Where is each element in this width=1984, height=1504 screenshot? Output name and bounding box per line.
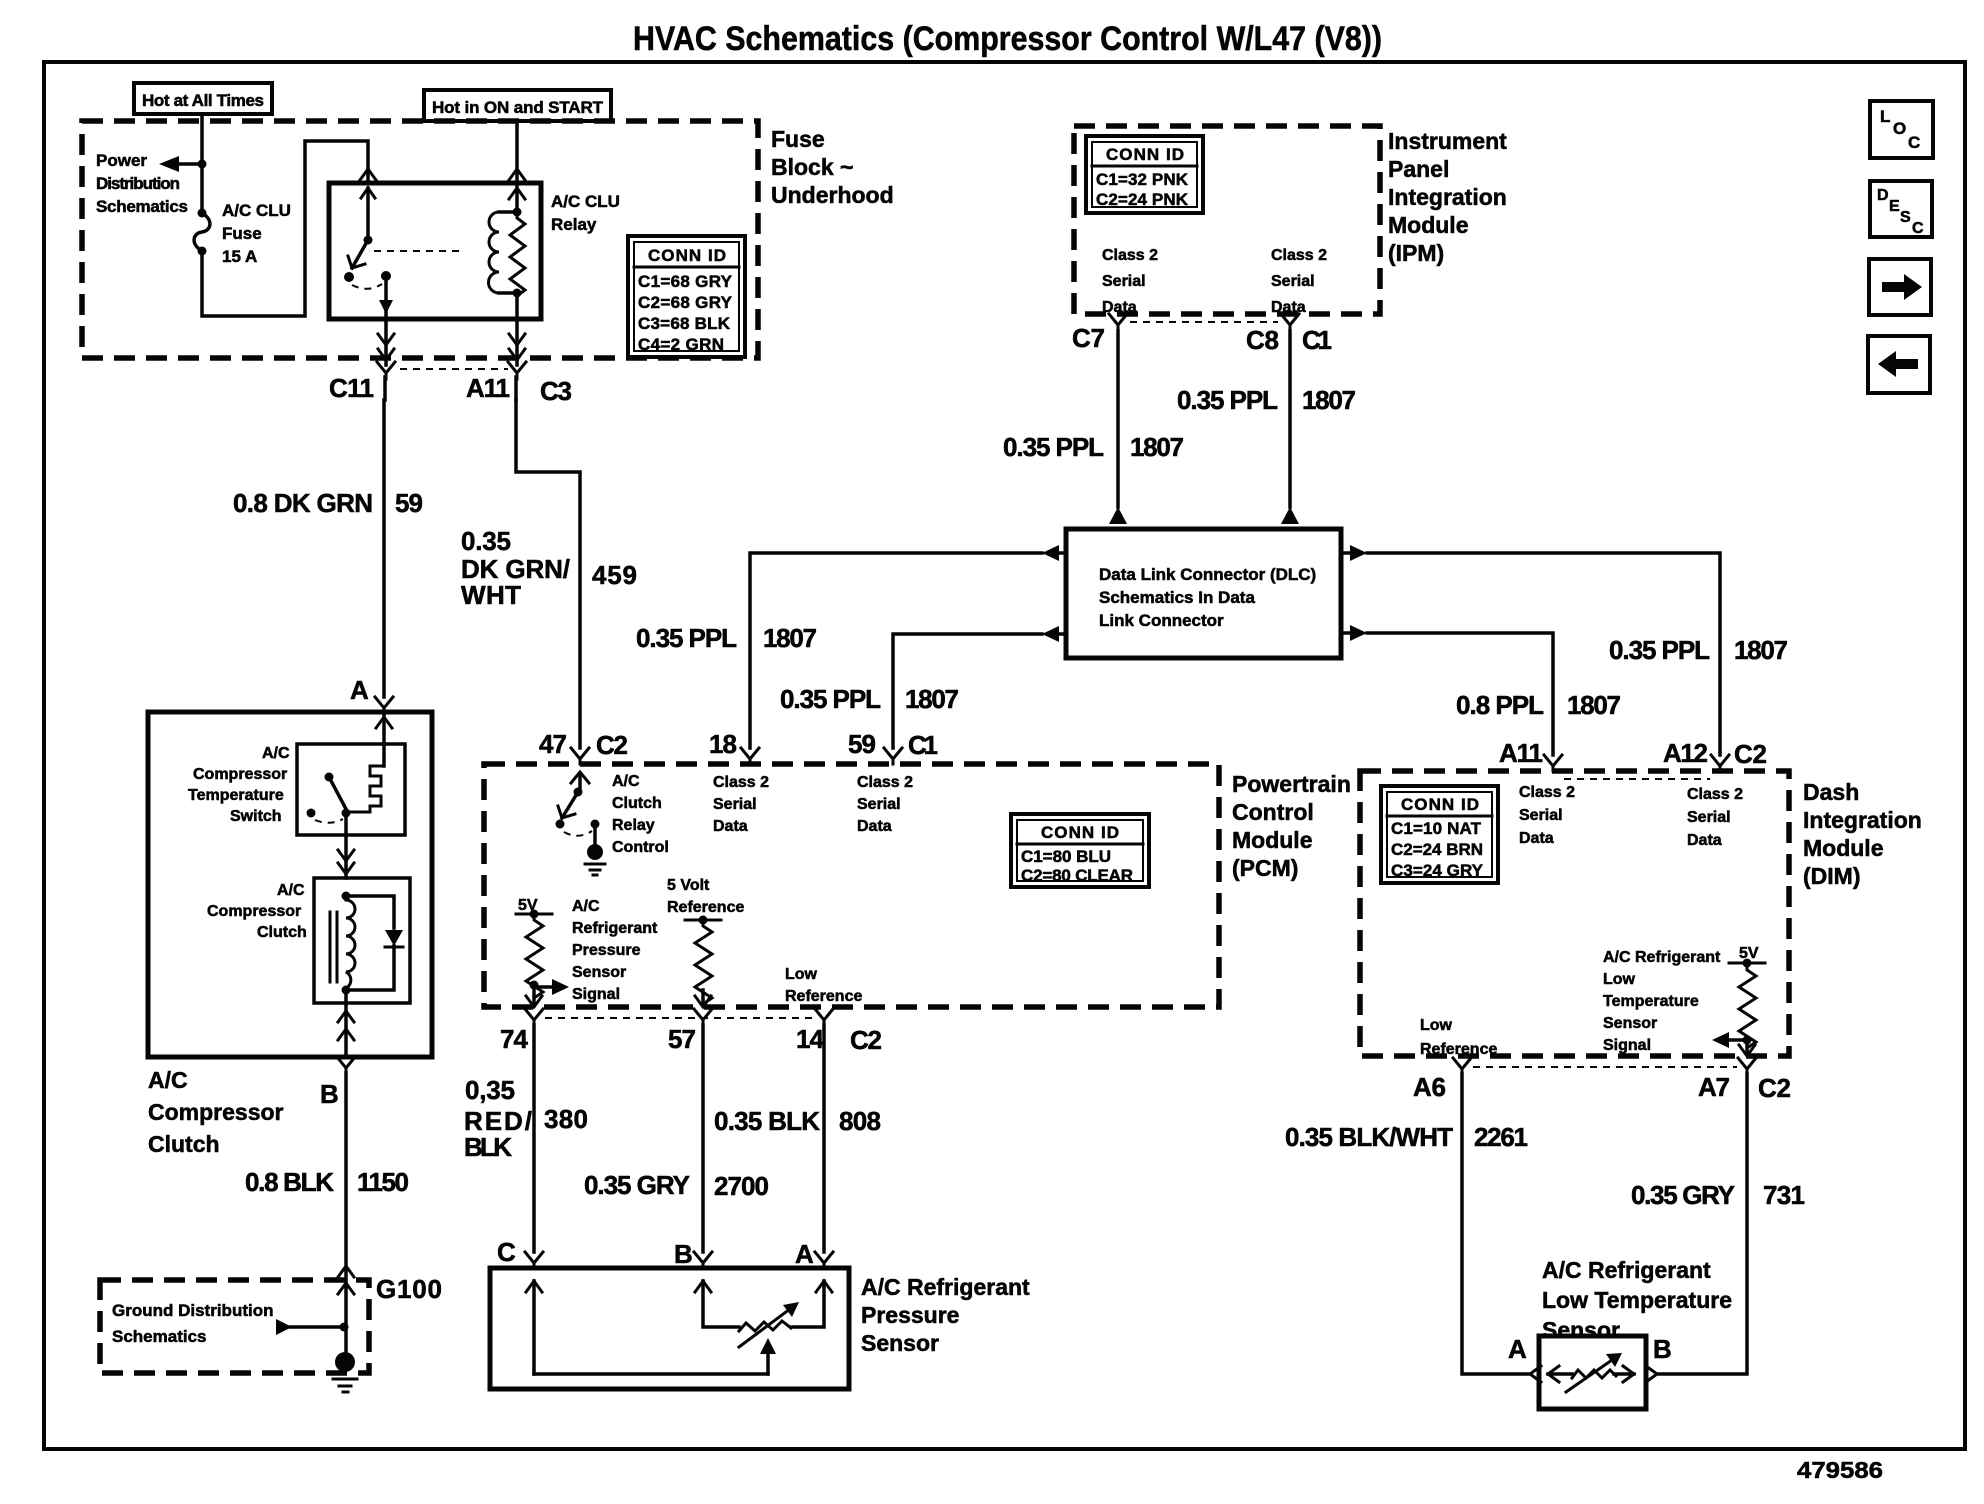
svg-text:Sensor: Sensor bbox=[1542, 1317, 1620, 1343]
svg-text:C1=68 GRY: C1=68 GRY bbox=[638, 272, 733, 291]
A/C compressor clutch inner box bbox=[314, 878, 410, 1003]
svg-text:Pressure: Pressure bbox=[572, 942, 641, 959]
wire Hot in ON and START to relay coil bbox=[515, 121, 519, 183]
DLC right arrow to DIM pin A11 bbox=[1341, 625, 1553, 755]
label Power Distribution Schematics bbox=[96, 151, 188, 216]
svg-text:Schematics: Schematics bbox=[112, 1327, 207, 1346]
svg-text:L: L bbox=[1880, 107, 1890, 126]
svg-text:1807: 1807 bbox=[1130, 432, 1184, 462]
svg-text:A/C: A/C bbox=[148, 1067, 188, 1093]
wire resistor to pin 74 bbox=[526, 985, 542, 1007]
connector dashed line A11-A12 bbox=[1564, 778, 1710, 780]
svg-text:0.35 PPL: 0.35 PPL bbox=[636, 623, 737, 653]
svg-text:CONN ID: CONN ID bbox=[1041, 823, 1119, 842]
svg-text:Reference: Reference bbox=[785, 988, 862, 1005]
svg-text:Control: Control bbox=[612, 839, 669, 856]
svg-text:Panel: Panel bbox=[1388, 156, 1449, 182]
svg-text:B: B bbox=[1653, 1334, 1672, 1364]
relay coil resistor bbox=[510, 212, 525, 319]
svg-text:Block ~: Block ~ bbox=[771, 154, 853, 180]
svg-text:Class 2: Class 2 bbox=[1519, 784, 1575, 801]
resistor A/C refrigerant low temperature sensor bbox=[1739, 963, 1756, 1051]
svg-text:C11: C11 bbox=[329, 373, 374, 403]
svg-text:0,35: 0,35 bbox=[465, 1075, 515, 1105]
svg-text:A/C CLU: A/C CLU bbox=[551, 192, 620, 211]
svg-text:1807: 1807 bbox=[1567, 690, 1621, 720]
svg-text:A11: A11 bbox=[466, 373, 510, 403]
svg-text:A/C Refrigerant: A/C Refrigerant bbox=[861, 1274, 1030, 1300]
temperature switch internals bbox=[307, 766, 385, 835]
svg-text:C2: C2 bbox=[850, 1025, 882, 1055]
svg-text:Clutch: Clutch bbox=[148, 1131, 220, 1157]
svg-text:0.8 BLK: 0.8 BLK bbox=[245, 1167, 334, 1197]
svg-text:Relay: Relay bbox=[551, 215, 597, 234]
pin 18 of PCM bbox=[709, 729, 759, 764]
svg-text:A11: A11 bbox=[1499, 738, 1543, 768]
pin A7 / C2 of DIM bbox=[1698, 1058, 1791, 1103]
svg-text:459: 459 bbox=[592, 560, 637, 590]
svg-text:Pressure: Pressure bbox=[861, 1302, 959, 1328]
low temperature sensor internals bbox=[1548, 1353, 1634, 1392]
svg-text:C: C bbox=[1908, 133, 1920, 152]
ground symbol in PCM bbox=[585, 824, 605, 875]
pin A of pressure sensor bbox=[795, 1239, 833, 1269]
wire 5 volt reference to pin 57 bbox=[695, 990, 711, 1007]
svg-text:Sensor: Sensor bbox=[572, 964, 626, 981]
svg-text:Low: Low bbox=[1420, 1017, 1453, 1034]
svg-text:A: A bbox=[1508, 1334, 1527, 1364]
svg-text:WHT: WHT bbox=[461, 580, 521, 610]
pin C of pressure sensor bbox=[497, 1237, 543, 1268]
svg-text:Instrument: Instrument bbox=[1388, 128, 1507, 154]
pin A11 of DIM bbox=[1499, 738, 1562, 771]
svg-text:18: 18 bbox=[709, 729, 737, 759]
label Low Reference (DIM) bbox=[1420, 1017, 1497, 1058]
ground distribution dashed box bbox=[100, 1280, 369, 1373]
DLC left arrow to PCM pin 18 bbox=[750, 545, 1066, 748]
arrow to Power Distribution Schematics bbox=[159, 156, 207, 172]
wire A11/C3 to PCM pin 47 with label 0.35 DK GRN/WHT 459 bbox=[516, 400, 580, 748]
svg-text:5 Volt: 5 Volt bbox=[667, 877, 710, 894]
svg-text:Reference: Reference bbox=[667, 899, 744, 916]
svg-text:C3=68 BLK: C3=68 BLK bbox=[638, 314, 731, 333]
label Data Link Connector text bbox=[1099, 565, 1316, 630]
svg-text:A: A bbox=[795, 1239, 814, 1269]
label Powertrain Control Module (PCM) bbox=[1232, 771, 1351, 881]
A/C refrigerant low temperature sensor box bbox=[1539, 1336, 1646, 1409]
connector chevron at relay switch input bbox=[360, 169, 376, 180]
pin 14 / C2 of PCM bbox=[796, 1009, 882, 1055]
wire fuse to relay switch bbox=[202, 141, 368, 316]
svg-text:Class 2: Class 2 bbox=[1271, 247, 1327, 264]
pin 59 / C1 of PCM bbox=[848, 729, 938, 764]
connector dashed line C7-C8 bbox=[1130, 321, 1278, 323]
pin 74 of PCM bbox=[500, 1009, 543, 1054]
svg-text:BLK: BLK bbox=[464, 1132, 512, 1162]
svg-text:C8: C8 bbox=[1246, 325, 1279, 355]
svg-text:15 A: 15 A bbox=[222, 247, 257, 266]
svg-text:Relay: Relay bbox=[612, 817, 655, 834]
svg-text:57: 57 bbox=[668, 1024, 696, 1054]
svg-text:C2=24 BRN: C2=24 BRN bbox=[1391, 840, 1483, 859]
svg-text:Module: Module bbox=[1388, 212, 1469, 238]
svg-text:C3: C3 bbox=[540, 376, 572, 406]
svg-text:0.35 BLK/WHT: 0.35 BLK/WHT bbox=[1285, 1122, 1453, 1152]
DESC button bbox=[1870, 181, 1932, 237]
svg-text:C2: C2 bbox=[1758, 1073, 1791, 1103]
svg-text:Data Link Connector (DLC): Data Link Connector (DLC) bbox=[1099, 565, 1316, 584]
label Instrument Panel Integration Module (IPM) bbox=[1388, 128, 1507, 266]
connector dashed line A6-A7 bbox=[1473, 1066, 1737, 1068]
CONN ID table fuse block bbox=[628, 236, 745, 357]
pin C7 bbox=[1072, 314, 1127, 353]
svg-text:Serial: Serial bbox=[857, 796, 901, 813]
svg-text:Serial: Serial bbox=[1271, 273, 1315, 290]
svg-text:C: C bbox=[497, 1237, 516, 1267]
svg-text:Low: Low bbox=[1603, 971, 1636, 988]
svg-text:Temperature: Temperature bbox=[188, 787, 284, 804]
CONN ID table PCM bbox=[1011, 814, 1149, 887]
wire pin A7 to sensor pin B bbox=[1659, 1074, 1747, 1374]
label Ground Distribution Schematics bbox=[112, 1301, 273, 1346]
wire resistor to pin A7 bbox=[1739, 1040, 1755, 1056]
svg-text:A7: A7 bbox=[1698, 1072, 1730, 1102]
svg-text:Compressor: Compressor bbox=[193, 766, 287, 783]
A/C refrigerant pressure sensor box bbox=[490, 1268, 849, 1389]
svg-text:Data: Data bbox=[1102, 299, 1137, 316]
wire pin B to G100 with label 0.8 BLK 1150 bbox=[344, 1073, 348, 1363]
label A/C Refrigerant Low Temperature Sensor bbox=[1542, 1257, 1732, 1343]
svg-text:380: 380 bbox=[544, 1104, 588, 1134]
svg-text:Low: Low bbox=[785, 966, 818, 983]
wire pin A6 to sensor pin A bbox=[1462, 1074, 1528, 1374]
svg-text:0.35 PPL: 0.35 PPL bbox=[780, 684, 881, 714]
fuse block underhood dashed box bbox=[82, 121, 758, 358]
Hot in ON and START banner bbox=[424, 90, 611, 121]
svg-text:Class 2: Class 2 bbox=[713, 774, 769, 791]
svg-text:C4=2 GRN: C4=2 GRN bbox=[638, 335, 724, 354]
A/C CLU relay box bbox=[329, 183, 541, 319]
CONN ID table DIM bbox=[1381, 786, 1498, 883]
svg-text:Integration: Integration bbox=[1803, 807, 1922, 833]
resistor 5 volt reference bbox=[695, 920, 712, 1006]
back arrow button bbox=[1868, 336, 1930, 393]
svg-text:1807: 1807 bbox=[1302, 385, 1356, 415]
wire from Hot at All Times to fuse bbox=[200, 114, 204, 212]
arrow to ground wire bbox=[276, 1319, 349, 1335]
label A/C Refrigerant Pressure Sensor bbox=[861, 1274, 1030, 1356]
svg-text:Ground Distribution: Ground Distribution bbox=[112, 1301, 273, 1320]
svg-text:B: B bbox=[674, 1239, 693, 1269]
wire clutch to pin B bbox=[338, 1003, 354, 1057]
svg-text:A/C Refrigerant: A/C Refrigerant bbox=[1603, 949, 1721, 966]
svg-text:A6: A6 bbox=[1413, 1072, 1446, 1102]
svg-text:A/C: A/C bbox=[262, 745, 290, 762]
svg-text:G100: G100 bbox=[376, 1274, 442, 1304]
pressure sensor internals bbox=[526, 1281, 832, 1374]
label Class 2 Serial Data (IPM C7) bbox=[1102, 247, 1158, 316]
svg-text:Schematics In Data: Schematics In Data bbox=[1099, 588, 1255, 607]
svg-text:14: 14 bbox=[796, 1024, 825, 1054]
svg-text:A/C: A/C bbox=[572, 898, 600, 915]
svg-text:808: 808 bbox=[839, 1106, 881, 1136]
label A/C Clutch Relay Control bbox=[612, 773, 669, 856]
relay switch bbox=[344, 188, 393, 319]
svg-text:Dash: Dash bbox=[1803, 779, 1859, 805]
svg-text:Serial: Serial bbox=[1687, 809, 1731, 826]
svg-text:Data: Data bbox=[1519, 830, 1554, 847]
svg-text:59: 59 bbox=[395, 488, 423, 518]
svg-text:0.35 PPL: 0.35 PPL bbox=[1177, 385, 1278, 415]
label A/C Compressor Temperature Switch bbox=[188, 745, 290, 825]
svg-text:B: B bbox=[320, 1079, 339, 1109]
wire temperature switch to clutch coil bbox=[338, 835, 354, 878]
svg-text:Signal: Signal bbox=[1603, 1037, 1651, 1054]
chevrons at ground box entry bbox=[338, 1266, 354, 1294]
label A/C Refrigerant Pressure Sensor Signal bbox=[572, 898, 658, 1003]
svg-text:C1=80 BLU: C1=80 BLU bbox=[1021, 847, 1111, 866]
svg-text:Module: Module bbox=[1803, 835, 1884, 861]
svg-text:Refrigerant: Refrigerant bbox=[572, 920, 658, 937]
svg-text:Hot at All Times: Hot at All Times bbox=[142, 91, 264, 110]
svg-text:(PCM): (PCM) bbox=[1232, 855, 1298, 881]
5 volt reference supply bbox=[667, 877, 744, 925]
svg-text:C2=80 CLEAR: C2=80 CLEAR bbox=[1021, 866, 1133, 885]
svg-text:Sensor: Sensor bbox=[1603, 1015, 1657, 1032]
ground symbol G100 bbox=[333, 1352, 357, 1392]
CONN ID table IPM bbox=[1086, 136, 1203, 213]
relay output wire to C11 bbox=[378, 319, 394, 400]
relay coil output wire to A11 bbox=[509, 319, 525, 400]
pin 47 / C2 of PCM bbox=[539, 729, 628, 764]
svg-text:(IPM): (IPM) bbox=[1388, 240, 1444, 266]
label Dash Integration Module (DIM) bbox=[1803, 779, 1922, 889]
label 0,35 RED/BLK bbox=[464, 1075, 532, 1162]
svg-text:74: 74 bbox=[500, 1024, 529, 1054]
connector pin C11 bbox=[329, 362, 395, 403]
svg-text:C2=68 GRY: C2=68 GRY bbox=[638, 293, 733, 312]
svg-text:0.35 PPL: 0.35 PPL bbox=[1609, 635, 1710, 665]
svg-text:C2=24 PNK: C2=24 PNK bbox=[1096, 190, 1189, 209]
svg-text:Fuse: Fuse bbox=[771, 126, 825, 152]
svg-text:Serial: Serial bbox=[1519, 807, 1563, 824]
svg-text:2700: 2700 bbox=[714, 1171, 769, 1201]
DIM dashed box bbox=[1360, 771, 1789, 1056]
svg-text:Distribution: Distribution bbox=[96, 174, 180, 193]
forward arrow button bbox=[1869, 259, 1931, 315]
svg-text:1807: 1807 bbox=[763, 623, 817, 653]
svg-text:A/C: A/C bbox=[277, 882, 305, 899]
pin B of low temperature sensor bbox=[1646, 1334, 1672, 1382]
svg-text:Sensor: Sensor bbox=[861, 1330, 939, 1356]
pin C8 / C1 bbox=[1246, 314, 1332, 355]
relay coil bbox=[489, 183, 522, 293]
label Class 2 Serial Data (PCM 59) bbox=[857, 774, 913, 835]
svg-text:CONN ID: CONN ID bbox=[1401, 795, 1479, 814]
DLC right arrow to DIM pin A12 bbox=[1341, 545, 1720, 755]
svg-text:2261: 2261 bbox=[1474, 1122, 1528, 1152]
svg-text:1150: 1150 bbox=[357, 1167, 409, 1197]
svg-text:Reference: Reference bbox=[1420, 1041, 1497, 1058]
svg-text:Module: Module bbox=[1232, 827, 1313, 853]
svg-text:0.35 PPL: 0.35 PPL bbox=[1003, 432, 1104, 462]
svg-text:(DIM): (DIM) bbox=[1803, 863, 1860, 889]
svg-text:O: O bbox=[1893, 119, 1906, 138]
fuse A/C CLU 15A bbox=[194, 209, 210, 256]
label Class 2 Serial Data (DIM A11) bbox=[1519, 784, 1575, 847]
svg-text:Compressor: Compressor bbox=[148, 1099, 284, 1125]
svg-text:Data: Data bbox=[713, 818, 748, 835]
svg-text:Control: Control bbox=[1232, 799, 1314, 825]
wire pin 14 to sensor pin A bbox=[822, 1025, 826, 1252]
svg-text:Class 2: Class 2 bbox=[857, 774, 913, 791]
svg-text:CONN ID: CONN ID bbox=[648, 246, 726, 265]
5V supply in DIM bbox=[1729, 945, 1765, 968]
pin A of low temperature sensor bbox=[1508, 1334, 1541, 1382]
svg-text:Compressor: Compressor bbox=[207, 903, 301, 920]
svg-text:Integration: Integration bbox=[1388, 184, 1507, 210]
signal arrow right bbox=[530, 979, 570, 995]
svg-text:A/C Refrigerant: A/C Refrigerant bbox=[1542, 1257, 1711, 1283]
A/C compressor clutch outer box bbox=[148, 712, 432, 1057]
signal arrow left in DIM bbox=[1712, 1032, 1752, 1048]
label A/C CLU Relay bbox=[551, 192, 620, 234]
connector pin A11 / C3 bbox=[466, 362, 572, 406]
svg-text:D: D bbox=[1877, 187, 1889, 204]
svg-text:Serial: Serial bbox=[1102, 273, 1146, 290]
label A/C Refrigerant Low Temperature Sensor Signal bbox=[1603, 949, 1721, 1054]
svg-text:E: E bbox=[1889, 198, 1900, 215]
pin B of compressor bbox=[320, 1057, 355, 1109]
relay actuation dashed link bbox=[374, 250, 461, 252]
svg-text:1807: 1807 bbox=[905, 684, 959, 714]
svg-text:Powertrain: Powertrain bbox=[1232, 771, 1351, 797]
svg-text:C: C bbox=[1912, 220, 1924, 237]
svg-text:A12: A12 bbox=[1663, 738, 1708, 768]
svg-text:731: 731 bbox=[1763, 1180, 1805, 1210]
label A/C Compressor Clutch below box bbox=[148, 1067, 284, 1157]
label Class 2 Serial Data (IPM C8) bbox=[1271, 247, 1327, 316]
Data Link Connector DLC box bbox=[1066, 529, 1341, 658]
svg-text:Link Connector: Link Connector bbox=[1099, 611, 1224, 630]
pin A of compressor bbox=[350, 675, 393, 712]
5V supply in PCM bbox=[516, 897, 552, 919]
svg-text:479586: 479586 bbox=[1797, 1457, 1883, 1483]
wire C7 to DLC with label 0.35 PPL 1807 bbox=[1109, 331, 1127, 524]
svg-text:47: 47 bbox=[539, 729, 567, 759]
wire C8 to DLC with label 0.35 PPL 1807 bbox=[1281, 331, 1299, 524]
wire pin 57 to sensor pin B bbox=[701, 1025, 705, 1252]
A/C compressor temperature switch box bbox=[297, 744, 405, 835]
svg-text:CONN ID: CONN ID bbox=[1106, 145, 1184, 164]
svg-text:Data: Data bbox=[1687, 832, 1722, 849]
svg-text:S: S bbox=[1900, 209, 1911, 226]
svg-text:0.35 BLK: 0.35 BLK bbox=[714, 1106, 820, 1136]
svg-text:Class 2: Class 2 bbox=[1102, 247, 1158, 264]
svg-text:Signal: Signal bbox=[572, 986, 620, 1003]
svg-text:Fuse: Fuse bbox=[222, 224, 262, 243]
label Class 2 Serial Data (PCM 18) bbox=[713, 774, 769, 835]
svg-text:59: 59 bbox=[848, 729, 876, 759]
pin 57 of PCM bbox=[668, 1009, 712, 1054]
wire pin 74 to sensor pin C bbox=[532, 1025, 536, 1252]
pin A6 of DIM bbox=[1413, 1058, 1471, 1102]
svg-text:C1=10 NAT: C1=10 NAT bbox=[1391, 819, 1482, 838]
svg-text:Data: Data bbox=[857, 818, 892, 835]
Hot at All Times banner bbox=[134, 83, 272, 114]
svg-text:Temperature: Temperature bbox=[1603, 993, 1699, 1010]
svg-text:A: A bbox=[350, 675, 369, 705]
label Fuse Block ~ Underhood bbox=[771, 126, 894, 208]
label Low Reference (PCM) bbox=[785, 966, 862, 1005]
PCM dashed box bbox=[484, 764, 1219, 1007]
clutch coil and diode bbox=[330, 892, 403, 1004]
svg-text:0.8 PPL: 0.8 PPL bbox=[1456, 690, 1544, 720]
svg-text:Hot in ON and START: Hot in ON and START bbox=[432, 98, 604, 117]
svg-text:Schematics: Schematics bbox=[96, 197, 188, 216]
label 0.35 DK GRN/WHT bbox=[461, 526, 570, 610]
resistor A/C refrigerant pressure sensor signal bbox=[526, 914, 543, 1002]
svg-text:Class 2: Class 2 bbox=[1687, 786, 1743, 803]
svg-text:HVAC Schematics (Compressor Co: HVAC Schematics (Compressor Control W/L4… bbox=[633, 20, 1382, 58]
svg-text:A/C: A/C bbox=[612, 773, 640, 790]
wire C11 to compressor pin A with label 0.8 DK GRN 59 bbox=[382, 400, 386, 697]
label A/C Compressor Clutch bbox=[207, 882, 307, 941]
svg-text:Clutch: Clutch bbox=[612, 795, 662, 812]
svg-text:Switch: Switch bbox=[230, 808, 282, 825]
svg-text:C2: C2 bbox=[1734, 739, 1767, 769]
LOC button bbox=[1870, 101, 1933, 158]
svg-text:Low Temperature: Low Temperature bbox=[1542, 1287, 1732, 1313]
svg-text:0.35: 0.35 bbox=[461, 526, 511, 556]
A/C clutch relay control driver bbox=[556, 772, 600, 836]
svg-text:C7: C7 bbox=[1072, 323, 1105, 353]
pin A12 / C2 of DIM bbox=[1663, 738, 1767, 771]
pin B of pressure sensor bbox=[674, 1239, 712, 1269]
svg-text:A/C CLU: A/C CLU bbox=[222, 201, 291, 220]
label A/C CLU Fuse 15 A bbox=[222, 201, 291, 266]
svg-text:0.8 DK GRN: 0.8 DK GRN bbox=[233, 488, 373, 518]
connector dashed line 74-14 bbox=[545, 1017, 814, 1019]
svg-text:C1: C1 bbox=[1302, 325, 1332, 355]
svg-text:Serial: Serial bbox=[713, 796, 757, 813]
wire pin A into temperature switch bbox=[376, 712, 392, 766]
connector chevron at relay coil input bbox=[509, 169, 525, 199]
svg-text:Power: Power bbox=[96, 151, 147, 170]
svg-text:0.35 GRY: 0.35 GRY bbox=[584, 1170, 690, 1200]
IPM dashed box bbox=[1074, 126, 1380, 314]
svg-text:0.35 GRY: 0.35 GRY bbox=[1631, 1180, 1735, 1210]
svg-text:C1: C1 bbox=[908, 730, 938, 760]
label Class 2 Serial Data (DIM A12) bbox=[1687, 786, 1743, 849]
svg-text:Clutch: Clutch bbox=[257, 924, 307, 941]
svg-text:C1=32 PNK: C1=32 PNK bbox=[1096, 170, 1189, 189]
svg-text:C2: C2 bbox=[596, 730, 628, 760]
svg-text:C3=24 GRY: C3=24 GRY bbox=[1391, 861, 1484, 880]
connector dashed line C11-A11 bbox=[400, 368, 508, 370]
DLC left arrow to PCM pin 59 bbox=[893, 626, 1066, 748]
svg-text:Underhood: Underhood bbox=[771, 182, 894, 208]
svg-text:1807: 1807 bbox=[1734, 635, 1788, 665]
